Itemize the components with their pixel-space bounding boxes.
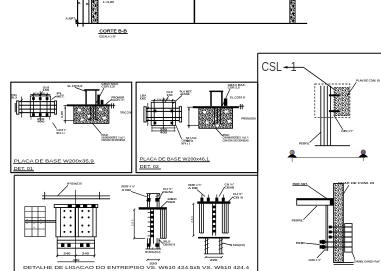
BL plan: splice plate top edge [54,205,98,208]
lower detail: anchor bolts [320,227,352,247]
BM elev: central plate [150,210,153,244]
BL plan: lower elevation strip [57,240,94,248]
P2 plan: top dimension line [151,99,175,101]
P2 section: bolt stubs right [239,104,244,109]
BR elev: side plates [200,204,229,233]
BR elev: central bolts [213,206,216,233]
svg-text:A.NPT: A.NPT [66,16,76,20]
upper detail: bolt upper [329,94,341,97]
P1 section: anchor rods [89,106,98,119]
svg-text:PERF.: PERF. [296,241,306,245]
BR elev: base plate line [198,237,230,239]
P2 plan: extension lines [152,99,175,132]
P2 plan: right flange [179,107,181,122]
svg-text:PLACA DE BASE W200x46,1: PLACA DE BASE W200x46,1 [140,157,210,162]
hatched column right [290,0,295,23]
hatched column left [91,0,98,23]
BM elev: top plate bar [139,207,167,209]
P1 plan: leader to plate [40,91,42,96]
svg-text:A DB: A DB [122,188,132,192]
BR elev: left dimension [192,203,194,237]
BL plan: left dim ticks [25,212,45,230]
upper detail: column lines [321,86,331,146]
wall line 2 [82,0,84,27]
lower detail: wall bottom step [334,262,354,264]
svg-text:CHAP 1 ½": CHAP 1 ½" [111,98,125,102]
P2 plan: base plate [151,98,175,130]
lower detail: wall [334,184,344,263]
lower detail: stiffener plate [326,205,328,251]
datum baseline [293,157,365,159]
BM elev: lower column [145,238,161,249]
upper detail: dashed region [315,84,350,117]
svg-text:PROM.DOU: PROM.DOU [241,117,256,121]
P1 plan: left dimension line [21,97,23,118]
wall line 1 [77,0,79,27]
P1 section: concrete footing [74,106,109,124]
datum symbol right [359,150,369,161]
CSL-1 leader arrow [284,67,335,89]
BR elev: top bolt stems [202,195,223,198]
P1 plan: left flange [15,101,19,114]
lower detail: beam [297,199,334,206]
svg-text:240: 240 [64,252,72,256]
svg-text:35: 35 [34,222,36,228]
svg-text:220: 220 [210,258,218,262]
svg-text:150: 150 [166,93,173,97]
svg-text:ESCALA 1:75: ESCALA 1:75 [99,35,115,39]
svg-text:CB 9: CB 9 [233,196,244,200]
svg-text:COR 2,5: COR 2,5 [228,86,241,90]
BL plan: bolt circles [63,210,89,233]
P1 section: base plate bar [67,104,111,106]
bottom panel left border [13,175,15,271]
P1 plan: top dimension line [30,94,50,96]
svg-text:240: 240 [82,252,90,256]
BR elev: lower I-column [204,239,224,254]
svg-text:NF4 x 1: NF4 x 1 [57,131,66,135]
svg-text:PLAN DE CONL DI: PLAN DE CONL DI [356,79,380,83]
svg-text:380: 380 [132,219,135,226]
BL plan: bottom dim line 1 [56,248,95,257]
BL plan: left dim block [25,207,45,237]
nut cluster [320,240,326,249]
svg-text:CSL - 1: CSL - 1 [262,60,297,74]
P2 section: left dimension [187,107,199,128]
BL plan: beam center lines [25,221,56,223]
P2 section: concrete footing [199,107,233,128]
P2 plan: anchor bolts [154,110,174,125]
svg-text:CORTE B-B: CORTE B-B [99,29,127,34]
svg-text:EL.COTA 8': EL.COTA 8' [230,95,246,99]
bolt heads on wall face [329,226,332,239]
P2 section: column [211,92,222,106]
P2 section: anchor rods [212,108,222,124]
CSL panel left border [257,53,259,271]
P1 section: left dimension [64,106,74,124]
svg-text:L=0,80: L=0,80 [103,0,114,4]
BL plan: top beam edge lines [42,192,110,200]
BM elev: bottom dim [146,259,160,261]
svg-text:35: 35 [27,218,29,224]
P1 plan: beam lines [19,102,56,113]
P2 plan: left flange [144,107,146,122]
svg-text:DETALHE DE LIGACAO DO ENTREPIS: DETALHE DE LIGACAO DO ENTREPISO VS. W610… [23,265,250,270]
svg-text:PERF. MET.: PERF. MET. [293,182,308,186]
svg-text:PERF 4 ½": PERF 4 ½" [188,183,202,187]
BM elev: column stub [146,194,160,208]
BM elev: right plates [160,210,166,239]
svg-text:COR 2,5!: COR 2,5! [101,85,115,89]
panel border DET.01 [11,82,132,172]
svg-text:A DB: A DB [188,186,198,190]
bottom panel top border [14,174,258,176]
svg-text:8: 8 [78,1,81,5]
level marker arrow [75,18,79,22]
panel border DET.02 [136,82,258,172]
center column line [193,0,195,23]
BL plan: bolt heads on top edge [68,204,96,208]
P2 plan: bottom dims [151,128,175,131]
svg-text:480: 480 [73,258,81,262]
BM elev: stub weld ticks [146,195,161,201]
P1 plan: right flange [55,101,57,114]
BR elev: top plate bar [197,201,230,203]
CSL panel top border [258,52,381,54]
P2 plan: beam lines [146,108,181,120]
svg-text:CB/AB: CB/AB [163,190,173,194]
svg-text:400: 400 [160,131,168,135]
P1 plan: base plate [30,91,50,121]
svg-text:COM GRAU DE EXPANSAO: COM GRAU DE EXPANSAO [223,138,249,142]
BL plan: connector ticks [57,237,94,240]
P1 section: column [86,91,96,105]
svg-text:W 610x(CU): W 610x(CU) [67,182,82,186]
svg-text:380: 380 [191,215,194,222]
svg-text:PLACA DE BASE W200x35,9: PLACA DE BASE W200x35,9 [14,158,95,163]
BM elev: left dimension [133,209,145,240]
BR elev: bottom dim [205,256,223,258]
BR elev: top bolt heads [200,198,224,202]
svg-text:COM GRAU DE EXPANSAO: COM GRAU DE EXPANSAO [101,138,125,142]
lower detail: anchor plate [345,224,352,253]
svg-text:CHPA 4 ½": CHPA 4 ½" [341,129,354,133]
P1 plan: anchor bolts [32,97,48,116]
upper detail: bolt lower [329,110,341,113]
BL plan: lower strip mid line [57,242,94,244]
svg-text:35,3: 35,3 [11,96,18,100]
svg-text:PERFIL: PERFIL [299,141,310,145]
BM elev: central bolts [151,211,154,237]
wall line 3 [88,0,90,23]
svg-text:NF 2: NF 2 [186,139,194,143]
svg-text:CHPA 4 ½": CHPA 4 ½" [309,258,322,262]
svg-text:PERFIL: PERFIL [292,219,304,223]
svg-text:MET.: MET. [57,94,65,98]
svg-text:150: 150 [43,88,50,92]
BL plan: main plate [56,208,96,237]
BL plan: bottom dim line 2 [57,261,94,263]
svg-text:DE: DE [140,96,147,100]
svg-text:150 150: 150 150 [157,99,171,101]
svg-text:35: 35 [41,218,43,224]
P1 plan: leader to bolt note [53,123,57,129]
upper detail: base line [315,145,350,147]
svg-text:TRAC CON: TRAC CON [120,110,131,114]
svg-text:CHUMB. GANCH 4'x9": CHUMB. GANCH 4'x9" [354,260,381,264]
svg-text:PERF 4 ½": PERF 4 ½" [122,185,136,189]
BL plan: lower strip bolts [61,244,90,247]
svg-text:CB/AB: CB/AB [225,186,235,190]
datum symbol left [287,150,297,162]
svg-text:W 610x(CU): W 610x(CU) [145,250,160,254]
svg-text:CB/AB 9: CB/AB 9 [163,243,176,247]
svg-text:CB9: CB9 [168,200,176,204]
svg-text:DET. 01: DET. 01 [14,166,34,171]
P1 section: bolt stubs right [110,103,115,108]
svg-text:0,80: 0,80 [60,110,64,118]
svg-text:W 610x(CU): W 610x(CU) [230,243,245,247]
BL plan: center axis [75,190,77,263]
ground line [76,22,308,24]
svg-text:+BASE: +BASE [180,92,190,96]
BR elev: central plate [213,204,216,236]
BR elev: flange hatch ticks [204,240,223,250]
P2 plan: left dimension [147,103,149,126]
P2 section: base plate bar [193,106,239,108]
P1 plan: extension lines [31,93,50,120]
svg-text:DET. 02: DET. 02 [140,164,160,169]
BM elev: bolt left ticks [148,213,151,236]
BM elev: lower bolt heads [147,243,159,246]
BM elev: stub bolt heads [147,198,159,202]
upper detail: concrete block [334,88,349,116]
svg-text:400: 400 [37,120,45,124]
